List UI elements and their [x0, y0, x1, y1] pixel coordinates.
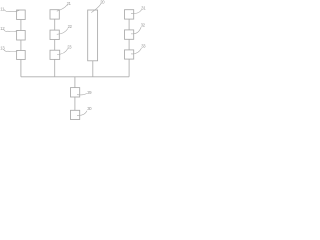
leader to block 29 [77, 93, 87, 95]
svg-text:13: 13 [0, 46, 5, 51]
svg-text:31: 31 [141, 5, 146, 10]
wire block21-block22 [54, 19, 56, 30]
block 23 [50, 50, 60, 59]
wire block33 to bus [128, 59, 130, 77]
block 12 [17, 31, 26, 41]
leader to block 33 [131, 48, 142, 54]
svg-text:30: 30 [87, 106, 92, 111]
block 31 [125, 10, 134, 19]
svg-text:22: 22 [68, 24, 73, 29]
leader to block 22 [57, 28, 68, 34]
leader to block 13 [4, 49, 19, 51]
leader to block 30 [77, 111, 87, 116]
block 20 tall bar [88, 10, 98, 61]
wire block29-block30 [74, 97, 76, 110]
block 22 [50, 30, 59, 39]
svg-text:33: 33 [141, 44, 146, 49]
svg-text:11: 11 [0, 6, 5, 11]
leader to block 11 [4, 10, 19, 12]
svg-text:12: 12 [0, 26, 5, 31]
wire block11-block12 [20, 20, 22, 31]
wire block13 to bus [20, 60, 22, 77]
wire block31-block32 [128, 19, 130, 30]
svg-text:29: 29 [87, 90, 92, 95]
leader to block 31 [131, 10, 142, 14]
block 29 [71, 88, 80, 97]
bus wire [21, 76, 129, 78]
svg-text:23: 23 [67, 45, 72, 50]
wire bus to block 29 [74, 77, 76, 88]
leader to block 23 [57, 49, 68, 55]
wire block20 to bus [92, 61, 94, 77]
block 11 [17, 10, 26, 20]
wire block32-block33 [128, 39, 130, 50]
wire block22-block23 [54, 40, 56, 51]
leader to block 32 [131, 27, 141, 34]
leader to block 12 [4, 29, 19, 31]
wire block23 to bus [54, 59, 56, 76]
svg-text:32: 32 [141, 23, 146, 28]
leader to block 21 [57, 5, 68, 11]
block 21 [50, 10, 59, 19]
block 30 [71, 110, 80, 119]
svg-text:21: 21 [67, 1, 72, 6]
wire block12-block13 [20, 40, 22, 51]
block 32 [125, 30, 134, 39]
leader to block 20 [91, 4, 101, 13]
block 13 [17, 51, 26, 60]
svg-text:20: 20 [100, 0, 105, 5]
block 33 [125, 50, 134, 59]
